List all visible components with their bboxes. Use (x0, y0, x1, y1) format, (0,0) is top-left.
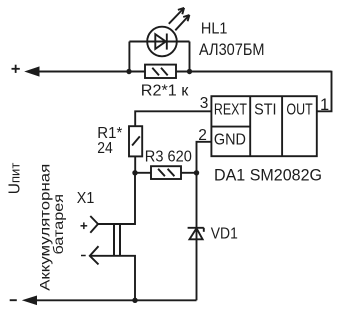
svg-text:VD1: VD1 (211, 226, 238, 243)
svg-text:DA1 SM2082G: DA1 SM2082G (214, 167, 322, 185)
wire R1 bottom to node (134, 156, 136, 172)
DA1 divider horizontal (211, 126, 250, 128)
node junction right of R2 (187, 69, 192, 74)
resistor R3 (151, 166, 181, 179)
wire right drop to pin 1 (317, 71, 332, 112)
svg-text:R2*1 к: R2*1 к (141, 82, 190, 99)
svg-text:HL1: HL1 (201, 21, 228, 38)
connector X1 minus pin (90, 246, 99, 264)
wire R3 left lead (135, 172, 151, 174)
svg-text:24: 24 (97, 140, 113, 157)
svg-text:GND: GND (214, 131, 246, 148)
svg-text:Uпит: Uпит (7, 163, 24, 195)
svg-text:батарея: батарея (50, 194, 66, 255)
resistor R1 (129, 126, 142, 156)
wire R3 right lead (181, 172, 197, 174)
wire bottom negative rail (35, 299, 197, 301)
svg-text:1: 1 (320, 96, 329, 114)
svg-text:R3 620: R3 620 (145, 149, 192, 166)
wire bottom negative rail arrow (22, 296, 37, 306)
wire LED branch left (128, 42, 130, 72)
svg-text:АЛ307БМ: АЛ307БМ (199, 41, 265, 59)
label minus supply (10, 299, 17, 301)
label battery plus (81, 222, 88, 229)
op-amp DA1 outline (211, 96, 316, 156)
svg-text:STI: STI (254, 102, 276, 119)
wire LED horizontal (129, 41, 189, 43)
connector X1 plus pin (90, 216, 98, 233)
zener diode VD1 (188, 228, 204, 240)
wire battery plus to node (98, 173, 135, 224)
svg-text:OUT: OUT (286, 102, 313, 119)
resistor R2 (145, 65, 176, 78)
svg-text:X1: X1 (77, 190, 95, 207)
label plus supply (12, 65, 20, 73)
svg-text:3: 3 (200, 95, 209, 112)
DA1 divider right (281, 96, 283, 156)
wire VD1 branch (196, 173, 198, 300)
wire top positive rail right segment (176, 71, 332, 73)
label battery minus (81, 255, 86, 257)
connector X1 bar right (119, 223, 121, 257)
node junction bottom battery minus (132, 298, 137, 303)
node junction left of R2 (126, 69, 131, 74)
svg-text:REXT: REXT (214, 102, 247, 119)
node junction R3 VD1 GND (194, 170, 199, 175)
wire top positive rail left segment (37, 71, 145, 73)
node junction R1 R3 battery plus (132, 170, 137, 175)
LED HL1 (147, 8, 189, 56)
connector X1 bar left (113, 223, 115, 257)
wire LED branch right (189, 42, 191, 72)
DA1 divider left (249, 96, 251, 156)
wire pin 2 GND (197, 142, 212, 173)
wire pin 3 to R1 (135, 111, 211, 126)
wire battery minus to bottom rail (90, 256, 135, 300)
wire top positive rail arrow (24, 66, 39, 76)
